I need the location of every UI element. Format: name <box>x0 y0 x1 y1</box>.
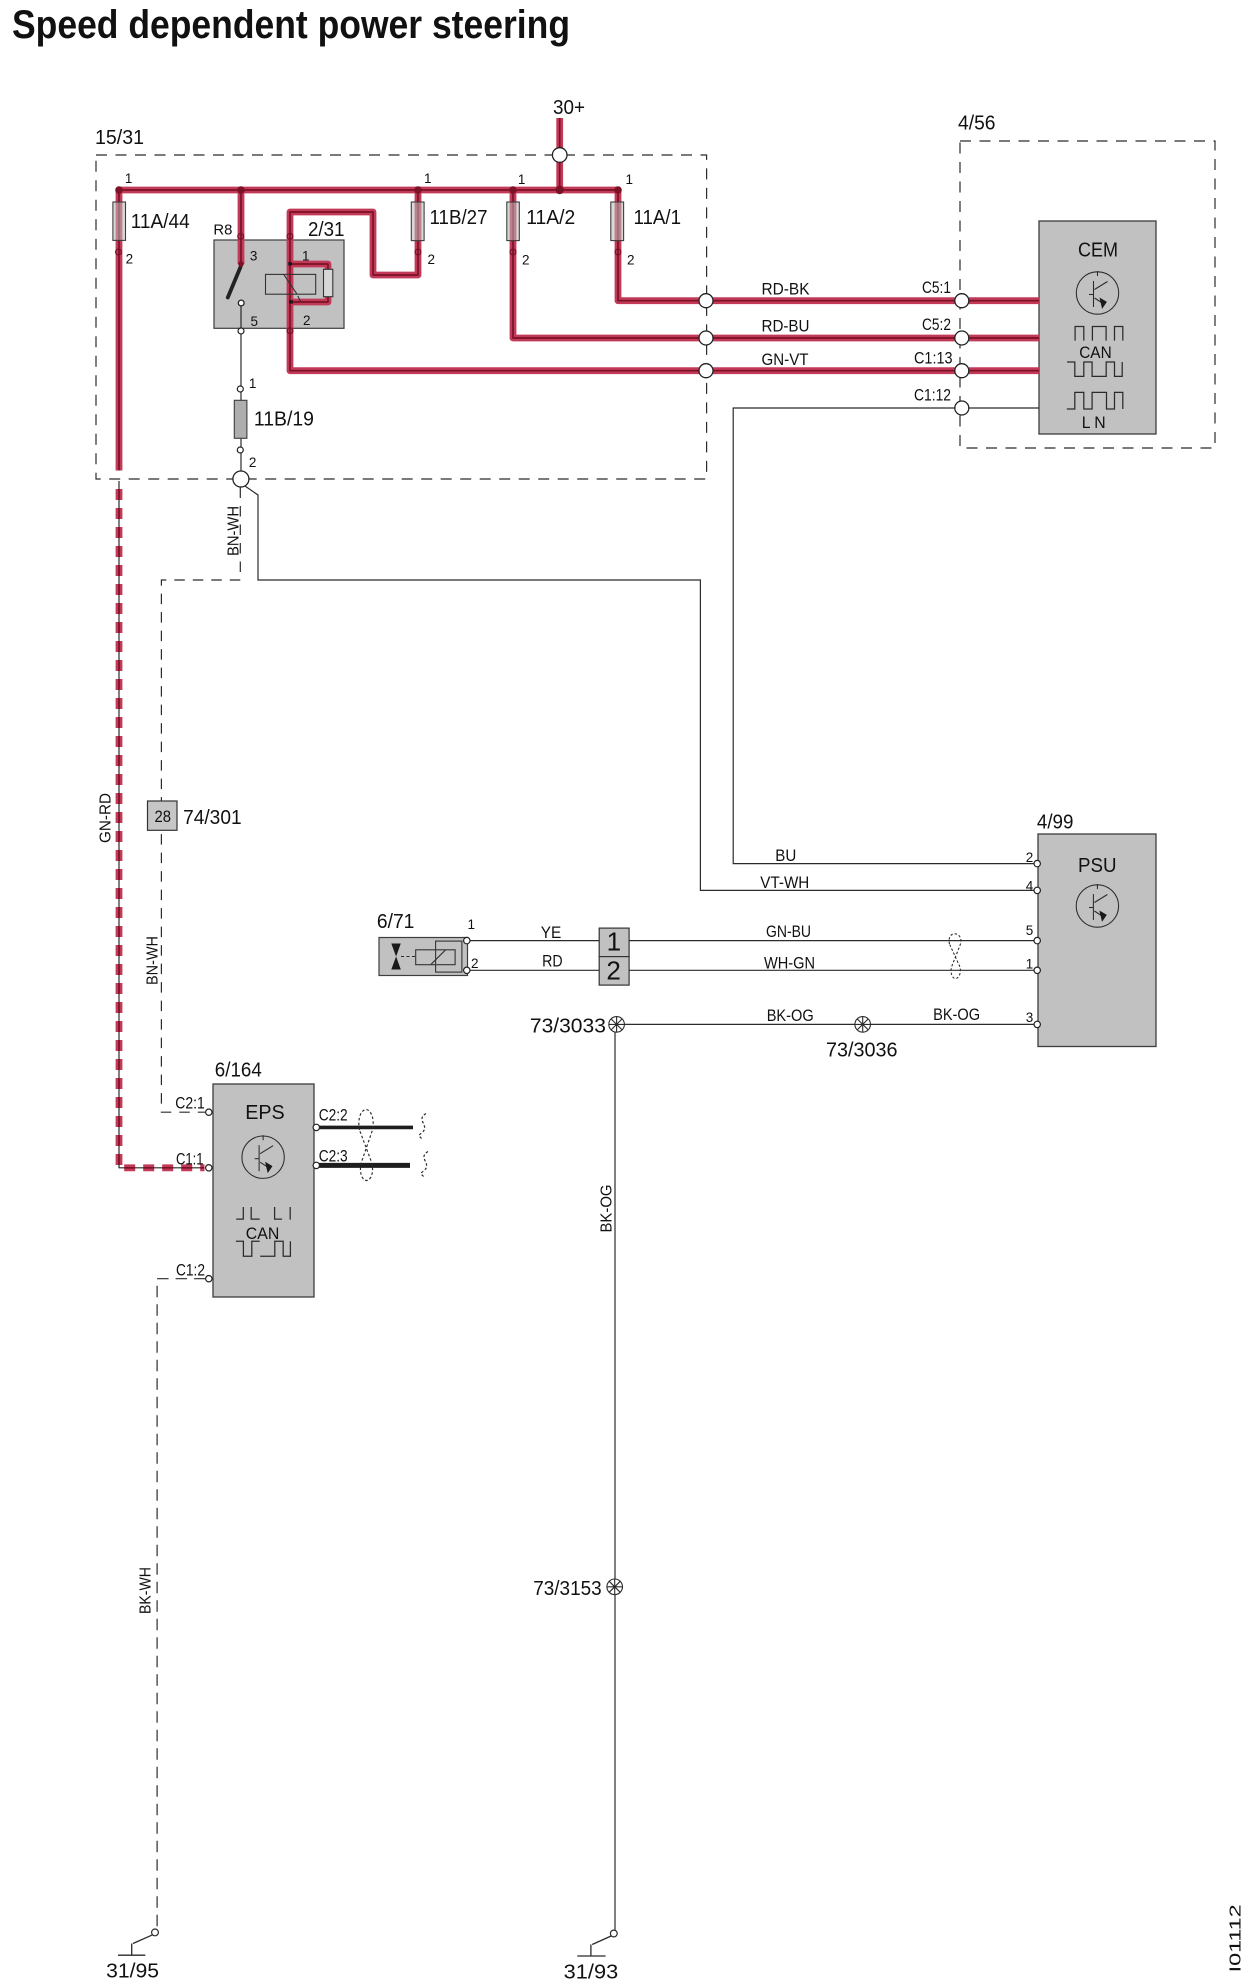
connector circle 15/31 edge RD-BU <box>699 331 713 345</box>
svg-text:L N: L N <box>1082 413 1106 432</box>
wire WH-GN row block to PSU pin1 <box>629 969 1035 971</box>
CEM ECU symbol <box>1076 271 1118 314</box>
svg-text:73/3033: 73/3033 <box>530 1016 606 1038</box>
splice 73/3153 <box>607 1579 623 1595</box>
svg-text:R8: R8 <box>213 222 232 239</box>
svg-text:4/99: 4/99 <box>1037 812 1074 834</box>
svg-text:C1:1: C1:1 <box>176 1150 204 1169</box>
svg-text:30+: 30+ <box>553 97 585 119</box>
svg-text:3: 3 <box>1026 1010 1034 1025</box>
wire fuse 11B/27 to relay pin1 zigzag and coil loop to GN-VT row <box>290 190 699 371</box>
svg-text:RD-BK: RD-BK <box>762 280 811 299</box>
svg-text:11A/44: 11A/44 <box>131 211 190 233</box>
connector circle CEM C1:13 <box>955 364 969 378</box>
svg-text:EPS: EPS <box>245 1102 285 1124</box>
svg-text:11A/2: 11A/2 <box>526 207 575 229</box>
pin ring PSU pin2 <box>1034 860 1040 866</box>
EPS ECU symbol <box>242 1135 284 1178</box>
svg-text:1: 1 <box>518 172 526 187</box>
wire 11B/19 output to PSU pin4 VT-WH <box>245 486 1035 890</box>
connector circle 30+ on box edge <box>552 148 567 163</box>
relay switch pivot dot <box>238 261 244 267</box>
sensor 6/71 body <box>379 938 468 976</box>
svg-text:YE: YE <box>541 923 562 942</box>
svg-text:GN-RD: GN-RD <box>98 793 115 843</box>
svg-text:1: 1 <box>125 171 133 186</box>
svg-text:C5:2: C5:2 <box>922 315 951 334</box>
pin ring EPS C2:1 <box>206 1109 212 1115</box>
svg-text:73/3153: 73/3153 <box>533 1578 602 1600</box>
wire red centerlines <box>119 118 1039 471</box>
wire BK-OG splice down to ground 31/93 <box>614 1024 616 1930</box>
svg-text:4/56: 4/56 <box>958 113 996 135</box>
svg-text:BN-WH: BN-WH <box>145 936 162 985</box>
pin ring relay pin1 <box>287 234 293 240</box>
relay coil diagonal <box>284 275 301 302</box>
connector circle CEM C5:1 <box>955 294 969 308</box>
svg-text:BK-WH: BK-WH <box>138 1567 155 1614</box>
wire RD row 6/71 pin2 to connector block 2 <box>469 969 599 971</box>
pin ring EPS C2:3 <box>313 1162 319 1168</box>
EPS 6/164 body <box>213 1084 314 1297</box>
svg-text:GN-VT: GN-VT <box>762 350 809 369</box>
svg-text:BK-OG: BK-OG <box>767 1006 814 1025</box>
break squiggle C2:2 <box>419 1114 426 1140</box>
EPS CAN symbol <box>236 1207 291 1256</box>
pin ring 6/71 pin1 <box>464 937 470 943</box>
svg-text:C2:3: C2:3 <box>319 1147 348 1166</box>
fuse 11B/19 <box>234 400 247 438</box>
wire fuse 11A/2 to RD-BU row <box>513 190 699 338</box>
connector block pin 2 box <box>599 957 629 986</box>
wire RD-BK row to CEM C5:1 <box>713 297 1039 304</box>
wire relay pin5 to fuse 11B/19 to box edge connector <box>240 306 242 471</box>
CEM CAN symbol <box>1067 327 1123 377</box>
pin ring fuse 11A/44 pin2 <box>116 249 122 255</box>
svg-text:C5:1: C5:1 <box>922 278 951 297</box>
connector circle 15/31 edge GN-VT <box>699 364 713 378</box>
splice 73/3033 <box>609 1017 625 1033</box>
svg-text:74/301: 74/301 <box>183 807 242 829</box>
pin ring PSU pin3 <box>1034 1021 1040 1027</box>
pin ring 11B/19 pin2 <box>237 447 243 453</box>
svg-text:BK-OG: BK-OG <box>933 1005 980 1024</box>
svg-text:C1:13: C1:13 <box>914 349 953 368</box>
wire relay coil loop <box>290 264 328 302</box>
svg-text:1: 1 <box>424 171 432 186</box>
connector circle 15/31 edge RD-BK <box>699 294 713 308</box>
svg-text:GN-BU: GN-BU <box>766 922 811 941</box>
svg-text:C1:2: C1:2 <box>176 1261 205 1280</box>
connector circle CEM C5:2 <box>955 331 969 345</box>
svg-text:C2:1: C2:1 <box>175 1094 205 1113</box>
svg-text:CEM: CEM <box>1078 240 1118 262</box>
svg-text:73/3036: 73/3036 <box>826 1040 898 1062</box>
svg-text:RD-BU: RD-BU <box>762 317 810 336</box>
ground 31/95 symbol <box>118 1935 153 1955</box>
svg-text:RD: RD <box>542 952 563 971</box>
svg-text:Speed dependent power steering: Speed dependent power steering <box>12 3 570 47</box>
svg-text:1: 1 <box>1026 957 1034 972</box>
wire main bus B+ <box>119 187 618 194</box>
wire BN-WH dashed: box connector to 74/301 to EPS C2:1 <box>161 488 240 1113</box>
svg-text:C1:12: C1:12 <box>914 386 951 405</box>
svg-text:2: 2 <box>606 956 620 986</box>
svg-text:11B/27: 11B/27 <box>430 207 488 229</box>
svg-text:C2:2: C2:2 <box>319 1106 348 1125</box>
pin ring PSU pin4 <box>1034 887 1040 893</box>
pin ring PSU pin1 <box>1034 967 1040 973</box>
svg-text:2: 2 <box>1026 850 1034 865</box>
wire GN-RD dashed centerline <box>119 489 205 1168</box>
wire GN-BU row block to PSU pin5 <box>629 940 1035 942</box>
svg-text:2: 2 <box>627 253 635 268</box>
wire CEM C1:12 to PSU pin2 BU <box>733 408 1035 864</box>
svg-text:VT-WH: VT-WH <box>760 873 809 892</box>
wire YE row 6/71 pin1 to connector block 1 <box>469 940 599 942</box>
wire fuse 11A/1 to RD-BK row <box>618 190 699 301</box>
svg-text:28: 28 <box>155 807 172 826</box>
wire C1:12 stub into CEM <box>969 407 1039 409</box>
pin ring EPS C2:2 <box>313 1124 319 1130</box>
wire bus to fuse 11A/44 down left column <box>116 190 123 471</box>
sensor 6/71 element box <box>416 950 455 965</box>
sensor 6/71 bracket <box>436 941 462 972</box>
svg-text:2: 2 <box>522 253 530 268</box>
svg-text:1: 1 <box>302 249 310 264</box>
fuse 11A/1 <box>611 202 624 241</box>
break squiggle C2:3 <box>421 1152 428 1178</box>
PSU ECU symbol <box>1076 884 1118 927</box>
svg-text:2: 2 <box>428 252 436 267</box>
splice 73/3036 <box>855 1017 871 1033</box>
svg-text:31/93: 31/93 <box>564 1962 619 1980</box>
wire BK-OG splice 73/3033 to PSU pin3 <box>617 1023 1035 1025</box>
dashed box 4/56 CEM housing <box>960 141 1215 448</box>
svg-text:1: 1 <box>249 376 257 391</box>
svg-text:6/164: 6/164 <box>215 1060 262 1082</box>
svg-text:2: 2 <box>303 313 311 328</box>
fuse 11B/27 <box>411 202 424 241</box>
svg-text:1: 1 <box>626 172 634 187</box>
pin ring relay pin3 <box>238 234 244 240</box>
svg-text:11A/1: 11A/1 <box>634 207 682 229</box>
junction dots on bus <box>115 186 622 194</box>
svg-text:PSU: PSU <box>1078 855 1117 877</box>
pin ring 6/71 pin2 <box>464 967 470 973</box>
pin ring 11B/19 pin1 <box>237 386 243 392</box>
svg-text:1: 1 <box>607 927 621 957</box>
svg-text:6/71: 6/71 <box>377 911 415 933</box>
svg-text:I01112: I01112 <box>1228 1904 1245 1972</box>
sensor 6/71 element diagonal <box>431 950 446 965</box>
svg-text:15/31: 15/31 <box>95 127 144 149</box>
twisted pair symbol at PSU <box>949 934 961 979</box>
svg-text:4: 4 <box>1026 878 1034 893</box>
svg-text:CAN: CAN <box>246 1224 279 1243</box>
relay switch arm <box>228 267 241 298</box>
svg-text:CAN: CAN <box>1079 343 1112 362</box>
wire 30+ feed <box>556 118 563 190</box>
wire GN-RD red dashed to EPS C1:1 <box>119 489 205 1168</box>
wire C2:3 extra thick <box>317 1163 410 1168</box>
wire BK-WH dashed: EPS C1:2 to ground 31/95 <box>157 1279 206 1930</box>
svg-text:2/31: 2/31 <box>308 219 345 241</box>
svg-text:2: 2 <box>126 252 134 267</box>
sensor 6/71 bowtie <box>391 944 401 970</box>
svg-text:BN-WH: BN-WH <box>226 506 243 556</box>
connector 74/301 box <box>148 801 178 830</box>
svg-text:BU: BU <box>775 846 796 865</box>
pin ring relay pin5 <box>238 328 244 334</box>
svg-text:5: 5 <box>251 314 259 329</box>
relay coil node squares <box>288 262 292 266</box>
sensor 6/71 dashed link <box>401 956 416 958</box>
svg-text:3: 3 <box>250 249 258 264</box>
dashed box 15/31 central electronic unit <box>96 155 707 479</box>
pin ring fuse 11A/2 pin2 <box>510 249 516 255</box>
connector block pin 1 box <box>599 928 629 957</box>
wire bus to relay pin3 <box>238 190 245 264</box>
CEM LIN symbol <box>1067 392 1123 409</box>
pin ring EPS C1:2 <box>206 1276 212 1282</box>
PSU 4/99 body <box>1038 834 1156 1047</box>
wire GN-VT row to CEM C1:13 <box>713 367 1039 374</box>
wire C2:2 thick <box>317 1126 413 1130</box>
relay coil box <box>266 274 316 294</box>
wire RD-BU row to CEM C5:2 <box>713 335 1039 342</box>
pin ring fuse 11B/27 pin2 <box>415 249 421 255</box>
svg-text:1: 1 <box>468 917 476 932</box>
connector circle CEM C1:12 <box>955 401 969 415</box>
twisted pair symbol at EPS <box>359 1110 373 1181</box>
CEM U4/56 body <box>1039 221 1156 434</box>
pin ring fuse 11A/1 pin2 <box>615 249 621 255</box>
connector circle 15/31 bottom BN-WH <box>233 471 249 487</box>
relay 2/31 body <box>214 240 344 328</box>
svg-text:2: 2 <box>249 455 257 470</box>
svg-text:31/95: 31/95 <box>106 1961 159 1980</box>
ground 31/93 symbol <box>577 1936 611 1956</box>
wire GN-RD dashed underlay <box>119 481 205 1168</box>
fuse 11A/2 <box>507 202 520 241</box>
svg-text:BK-OG: BK-OG <box>599 1185 616 1233</box>
svg-text:WH-GN: WH-GN <box>764 954 815 973</box>
svg-text:2: 2 <box>471 956 479 971</box>
fuse 11A/44 <box>113 202 126 240</box>
relay pin5 contact <box>238 300 244 306</box>
pin ring PSU pin5 <box>1034 937 1040 943</box>
svg-text:5: 5 <box>1026 923 1034 938</box>
relay core bar <box>324 269 333 296</box>
pin ring EPS C1:1 <box>206 1165 212 1171</box>
pin ring relay pin2 <box>287 328 293 334</box>
svg-text:11B/19: 11B/19 <box>254 409 314 431</box>
